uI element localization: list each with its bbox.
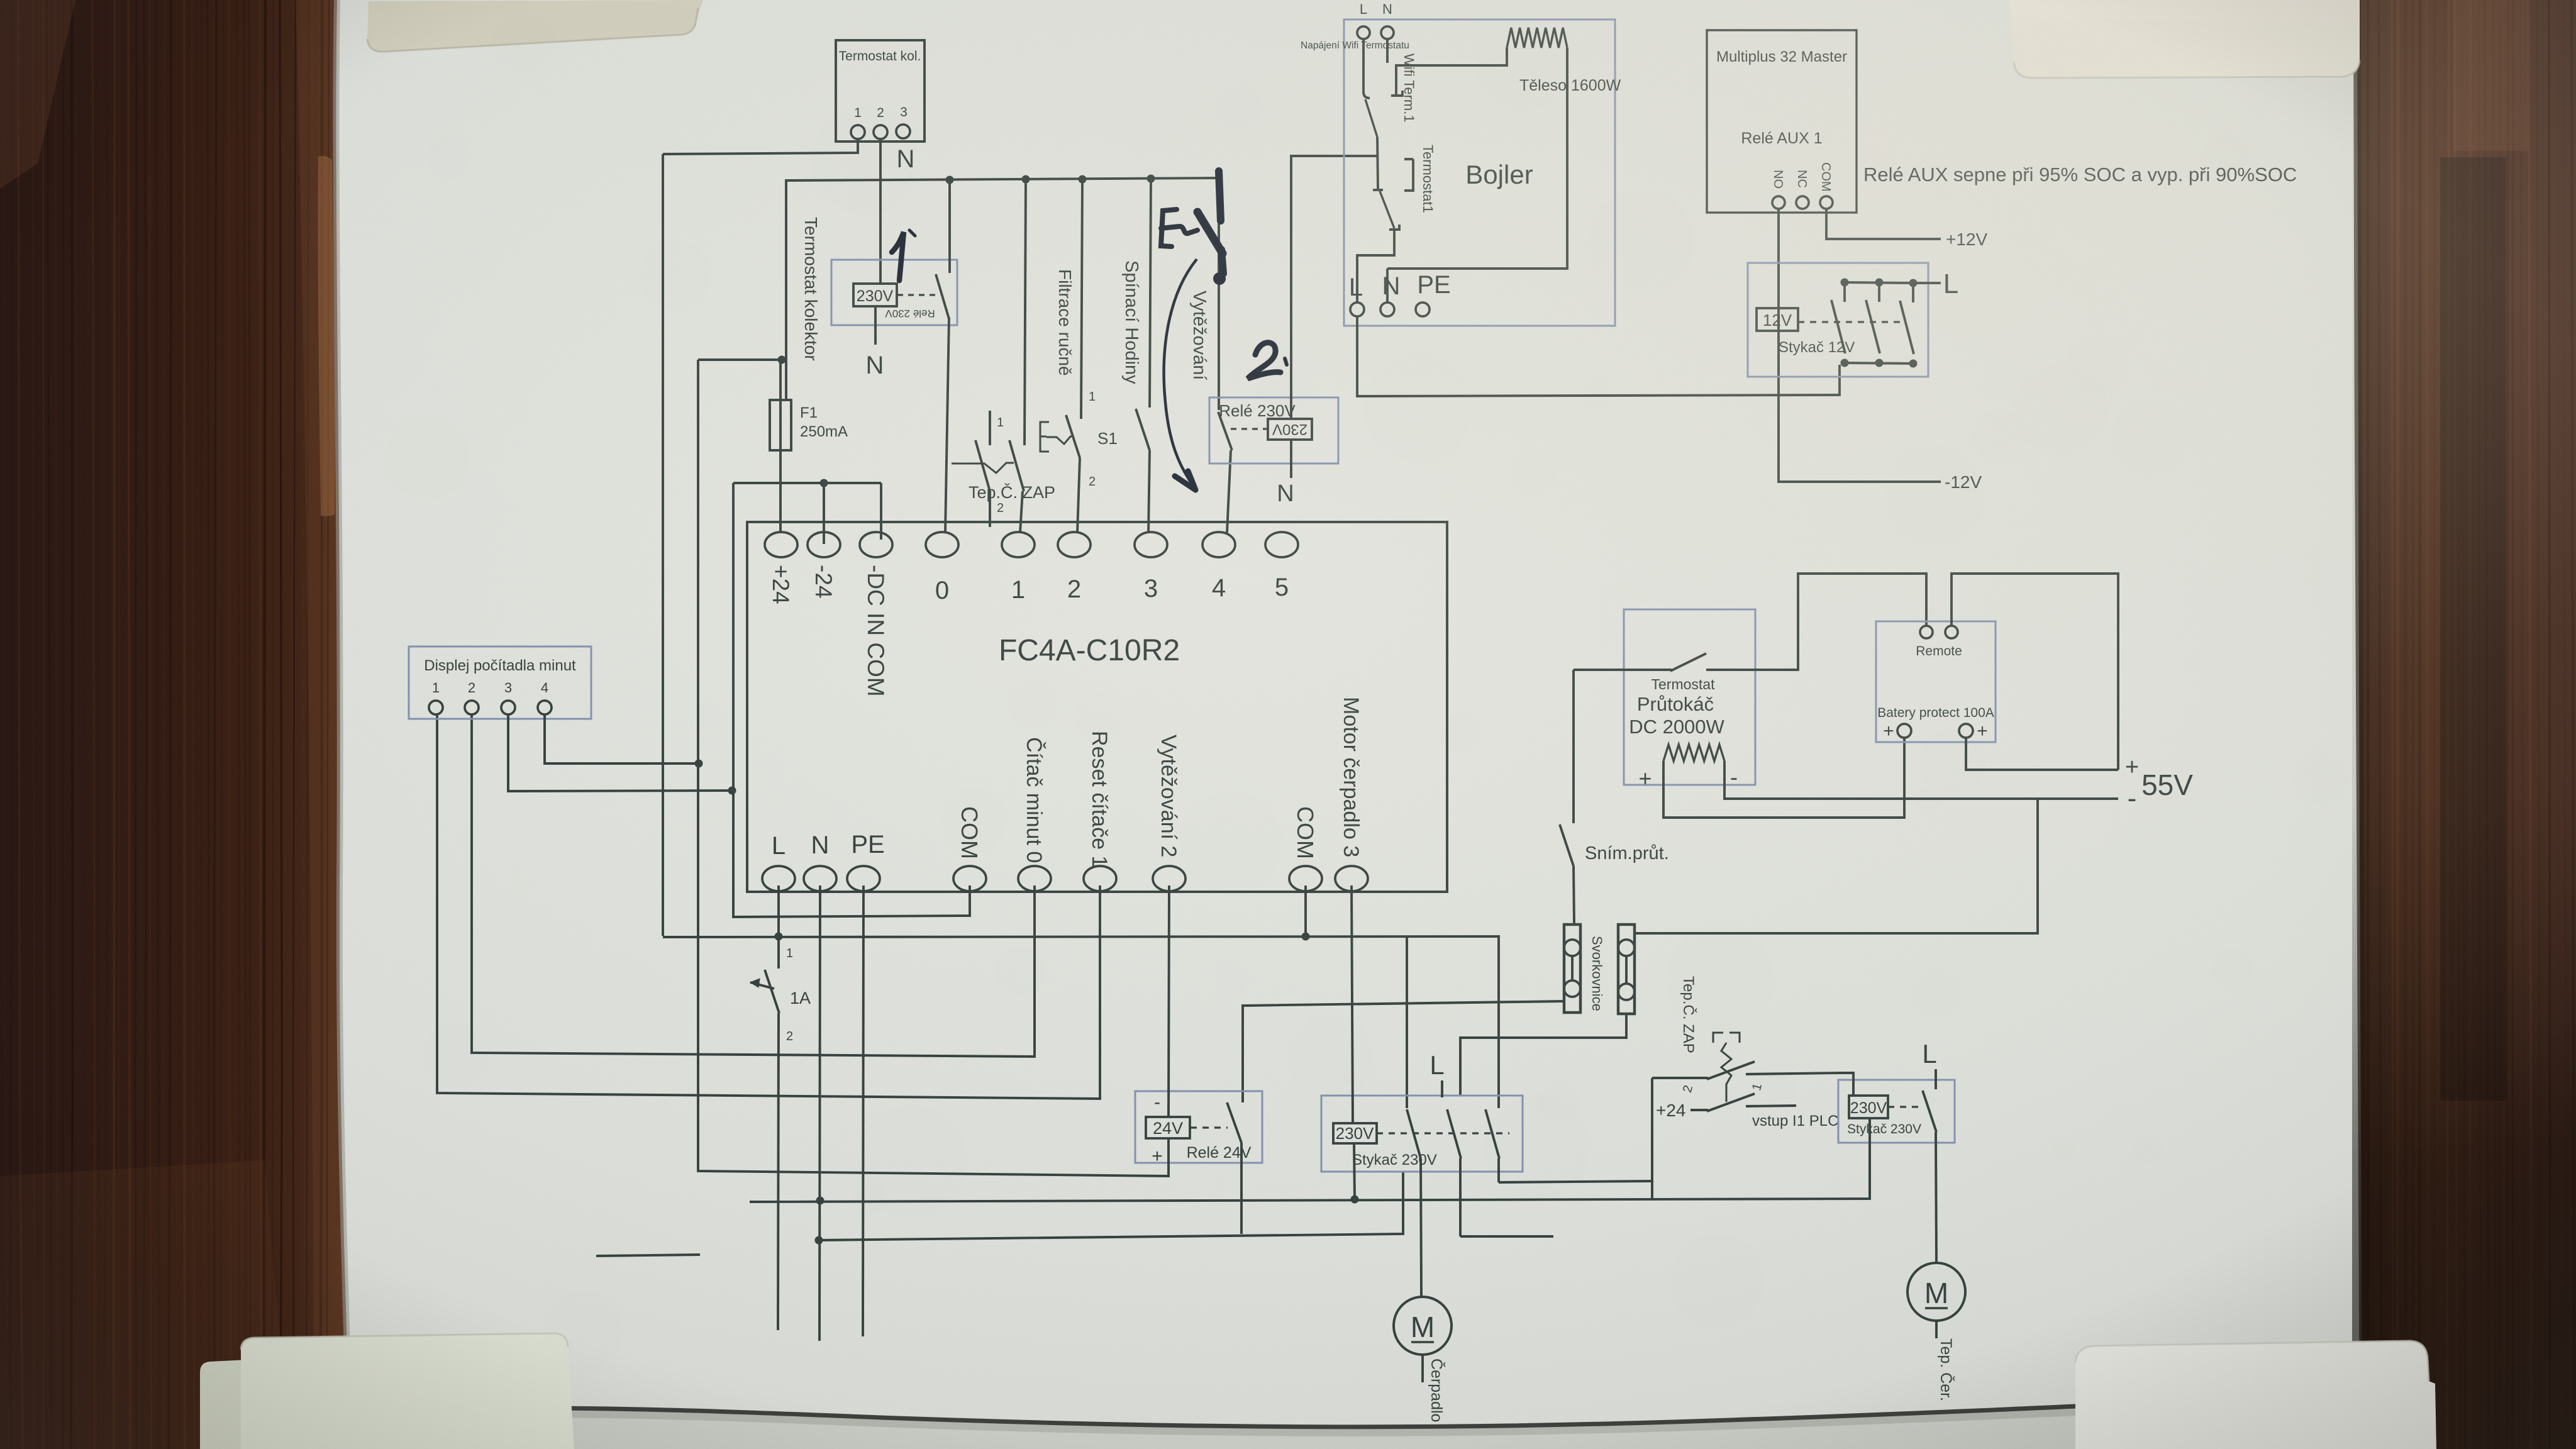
terminal 5	[1265, 532, 1298, 601]
wire +24 feed vertical (to display & relay plus)	[698, 360, 1169, 1176]
wire bus branch to -24/F1 junction	[698, 356, 786, 364]
box Stykac 230V #1	[1321, 1096, 1523, 1172]
relay Rele 24V	[1135, 1091, 1262, 1167]
switch rele24V contact	[1227, 1102, 1241, 1234]
wire relay2 coil to N	[1277, 440, 1294, 507]
wire coil2 feed from tep.c.zap	[1838, 1073, 1853, 1096]
wire PE vertical below PLC	[863, 885, 863, 1336]
actuator linkage lower tep.c.zap	[1713, 1033, 1740, 1102]
switch tep.c.zap lower pole1	[1652, 1062, 1838, 1092]
switch S1	[1066, 179, 1118, 533]
pen handwritten 1	[892, 230, 915, 280]
terminal block svorkovnice left	[1564, 924, 1580, 1013]
switch Snim.prut.	[1560, 670, 1669, 924]
box Stykac 230V #2	[1838, 1080, 1955, 1143]
box Batery protect 100A	[1876, 621, 1996, 742]
terminal NO	[1771, 170, 1785, 209]
wire N branch to rele24V switch and stykac1	[815, 1172, 1404, 1245]
heater Teleso 1600W	[1387, 28, 1567, 269]
wire heater minus to -55V rail	[1724, 761, 2118, 799]
relay Rele 230V #2	[1209, 397, 1338, 464]
wire stykac1 coil to N rail	[1354, 1143, 1355, 1200]
junction bus/spinaci hodiny	[1147, 175, 1155, 183]
wire NO to -12V	[1779, 209, 1982, 492]
terminal remote2	[1945, 574, 2118, 770]
coil 230V stykac2	[1849, 1096, 1919, 1118]
terminal -24	[808, 532, 840, 598]
terminal NC	[1795, 170, 1809, 209]
fuse F1 250mA	[770, 360, 848, 531]
pen handwritten 2	[1248, 343, 1287, 379]
wire N vertical below PLC	[819, 885, 820, 1341]
wire COM to +12V	[1826, 209, 1987, 249]
wire termostat kol 1 to left feed	[663, 139, 858, 154]
box Displej pocitadla minut	[409, 647, 591, 719]
box Stykac 12V	[1748, 263, 1928, 377]
coil 12V	[1757, 308, 1906, 331]
wire -24/COM routing	[733, 479, 970, 918]
motor M cerpadlo	[1394, 1297, 1452, 1422]
box Prutokac DC 2000W	[1624, 609, 1755, 785]
junction bus/S1	[1079, 175, 1087, 184]
wire L feed vertical	[662, 154, 664, 936]
terminal COM1	[953, 806, 986, 891]
bojler bottom terminals L N PE	[1349, 269, 1451, 316]
contact stykac1 pole2	[1447, 1109, 1553, 1236]
switch Wifi Term.1	[1363, 39, 1402, 137]
wire N rail	[750, 1119, 1870, 1205]
wire top supply bus	[786, 178, 1219, 400]
relay Rele 230V #1	[831, 260, 957, 325]
wire svorkovnice left bottom to rele24V contact	[1243, 1001, 1564, 1102]
node L stykac1	[1430, 1050, 1444, 1097]
motor M tep.cer.	[1907, 1263, 1965, 1401]
switch relay1 contact	[936, 180, 950, 533]
contact stykac12V pole1	[1831, 279, 1849, 367]
terminal L bojler top	[1357, 1, 1370, 39]
terminal COM	[1819, 162, 1833, 209]
terminal 1	[1002, 532, 1035, 604]
box Multiplus 32 Master	[1707, 30, 1857, 213]
label 55V	[2125, 754, 2193, 814]
terminal COM2	[1289, 806, 1322, 891]
terminal 0	[926, 532, 958, 604]
PLC FC4A-C10R2	[747, 522, 1447, 892]
terminal -DC IN COM	[860, 532, 892, 697]
terminal 2	[1058, 532, 1091, 603]
switch Termostat1	[1373, 159, 1413, 230]
heater prutokac	[1638, 745, 1738, 791]
wire PLC output2 to rele24V coil	[1169, 885, 1169, 1117]
wire termostat1 to L terminal	[1357, 228, 1394, 302]
wire heater plus to battery out	[1663, 738, 1904, 818]
terminal +24	[765, 532, 797, 604]
terminal block svorkovnice right	[1618, 924, 1635, 1014]
terminal 4	[1202, 532, 1235, 602]
wire battery to +55V	[1966, 738, 2118, 770]
wire L vertical below PLC	[778, 885, 779, 1330]
terminal L	[762, 832, 795, 891]
terminal output 3 Motor cerpadlo	[1335, 697, 1368, 891]
wire coil2 to N rail	[1868, 1118, 1871, 1199]
wire stub bottom left	[596, 1255, 700, 1256]
wire relay1 coil to N	[866, 306, 884, 379]
wire displej t3	[508, 714, 736, 795]
switch Tep.C.ZAP upper pole2	[1009, 179, 1026, 533]
pen scribble over bus	[1161, 171, 1223, 274]
box Bojler	[1344, 19, 1615, 326]
contact stykac1 pole3	[1485, 1109, 1652, 1182]
junction bus/tep.c.zap	[1022, 175, 1030, 184]
terminal battery plus left	[1883, 721, 1911, 741]
switch Tep.C.ZAP upper pole1	[975, 411, 1004, 527]
coil 230V stykac1	[1333, 1123, 1509, 1143]
contact stykac1 pole1	[1407, 1109, 1421, 1297]
wire PLC output3 to stykac1 coil	[1352, 885, 1353, 1123]
wire prutokac to remote	[1755, 574, 1926, 670]
wire wifi switch to termostat1	[1377, 137, 1378, 189]
node N (termostat kol terminal 3)	[897, 145, 915, 173]
switch termostat prutokac	[1574, 653, 1755, 671]
contact stykac12V pole2	[1866, 279, 1884, 367]
wire rele24V plus out	[1167, 1138, 1170, 1177]
wire output1 to displej t1	[437, 714, 1100, 1099]
actuator S1	[1040, 422, 1073, 452]
wire COM2 short	[1304, 885, 1307, 936]
switch tep.c.zap lower pole2 (+24 / vstup I1 PLC)	[1656, 1084, 1838, 1130]
box Termostat kol.	[836, 40, 924, 142]
terminal N	[804, 831, 836, 891]
contact stykac2	[1923, 1091, 1936, 1263]
wire tep.c.zap pole1 left vertical to N rail	[1651, 1078, 1653, 1199]
node L stykac2	[1922, 1039, 1936, 1089]
contact stykac12V pole3	[1900, 279, 1918, 368]
pen arrow curve	[1164, 259, 1197, 490]
linkage Tep.C.ZAP upper	[952, 463, 1014, 473]
terminal output 0 Citac minut	[1018, 737, 1051, 891]
switch 1A	[750, 936, 811, 1043]
terminal output 2 Vytezovani	[1153, 735, 1185, 891]
wire output0 to displej t2	[472, 714, 1035, 1057]
wire stykac12V bottom bar	[1845, 363, 1913, 364]
switch relay2 contact (vytezovani)	[1218, 178, 1232, 533]
switch spinaci hodiny	[1136, 179, 1151, 533]
wire relay2 coil top to bojler	[1291, 156, 1378, 419]
wire termostat kol 2 down to relay coil	[879, 139, 882, 285]
wire bojler L down to stykac12V output	[1357, 316, 1840, 396]
wire stykac12V top bar to L	[1845, 269, 1958, 299]
terminal remote1	[1920, 626, 1933, 638]
terminal PE	[847, 831, 885, 891]
wire svorkovnice right top to -55 rail	[1635, 799, 2038, 933]
terminal 3	[1135, 532, 1167, 602]
terminal N bojler top	[1381, 1, 1394, 39]
terminal output 1 Reset citace	[1084, 731, 1116, 891]
wire L rail	[663, 933, 1499, 1109]
terminal battery plus right	[1959, 721, 1988, 741]
wire svorkovnice right bottom to stykac230 pole2	[1460, 1014, 1626, 1096]
junction bus/relay1	[946, 176, 954, 184]
wire displej t4	[545, 714, 703, 768]
